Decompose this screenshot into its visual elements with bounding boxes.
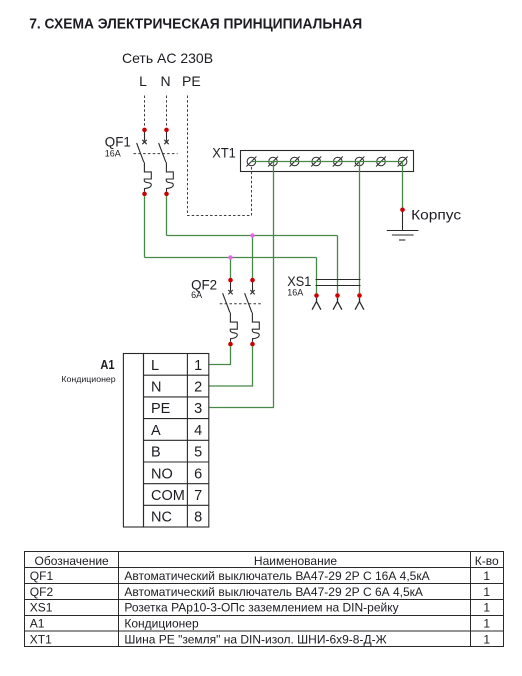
svg-text:N: N xyxy=(160,73,170,89)
QF2 pole 2 xyxy=(245,278,260,347)
XT1 terminal 3 xyxy=(290,157,300,167)
svg-text:7. СХЕМА ЭЛЕКТРИЧЕСКАЯ ПРИНЦИП: 7. СХЕМА ЭЛЕКТРИЧЕСКАЯ ПРИНЦИПИАЛЬНАЯ xyxy=(29,17,362,33)
wire: N horizontal to XS1 xyxy=(167,235,338,237)
svg-text:1: 1 xyxy=(483,616,490,630)
svg-text:L: L xyxy=(139,73,147,89)
XT1 terminal 8 xyxy=(398,157,408,167)
wire: XT1-6 down to XS1 pin 3 xyxy=(359,162,361,294)
svg-text:Автоматический выключатель ВА4: Автоматический выключатель ВА47-29 2Р С … xyxy=(124,569,429,583)
svg-text:8: 8 xyxy=(194,510,202,526)
wire: branch to QF2 pole 1 xyxy=(230,258,232,278)
table row XS1 xyxy=(30,601,491,615)
svg-text:A1: A1 xyxy=(100,357,114,372)
svg-text:QF2: QF2 xyxy=(30,585,54,599)
XT1 terminal 7 xyxy=(376,157,386,167)
svg-text:Автоматический выключатель ВА4: Автоматический выключатель ВА47-29 2Р С … xyxy=(124,585,423,599)
wire: N dashed lead-in xyxy=(166,96,168,128)
A1 body xyxy=(123,354,143,528)
XT1 body xyxy=(241,151,414,172)
svg-text:6: 6 xyxy=(194,466,202,482)
A1 terminal table xyxy=(144,354,209,528)
wire: XT1 PE bus xyxy=(252,161,403,163)
svg-text:Наименование: Наименование xyxy=(254,554,338,568)
XT1 terminal 6 xyxy=(354,157,364,167)
XS1 pin 2 xyxy=(333,293,342,310)
svg-text:16А: 16А xyxy=(105,148,121,158)
wire: QF2 N-out to A1 pin 2 xyxy=(209,346,253,386)
XT1 terminal 4 xyxy=(311,157,321,167)
svg-text:16А: 16А xyxy=(287,288,303,298)
svg-text:PE: PE xyxy=(151,401,171,417)
svg-text:QF1: QF1 xyxy=(105,133,131,149)
XS1 pin 3 xyxy=(355,293,364,310)
svg-text:XS1: XS1 xyxy=(30,601,53,615)
svg-text:3: 3 xyxy=(194,401,202,417)
XT1 terminal 5 xyxy=(333,157,343,167)
junction: L node xyxy=(228,255,232,259)
XS1 body bars xyxy=(316,280,361,286)
svg-text:Розетка РАр10-3-ОПс заземление: Розетка РАр10-3-ОПс заземлением на DIN-р… xyxy=(124,601,398,615)
wire: QF1 L-out down xyxy=(144,196,146,257)
XS1 pin 1 xyxy=(312,293,321,310)
svg-text:Сеть AC 230В: Сеть AC 230В xyxy=(122,50,213,66)
table row QF2 xyxy=(30,585,491,599)
svg-text:2: 2 xyxy=(194,380,202,396)
svg-text:4: 4 xyxy=(194,423,202,439)
svg-text:NC: NC xyxy=(151,510,172,526)
wire: branch to QF2 pole 2 xyxy=(252,236,254,278)
svg-text:B: B xyxy=(151,445,161,461)
QF1 pole 2 xyxy=(159,128,174,197)
junction: N node xyxy=(250,233,254,237)
svg-text:Корпус: Корпус xyxy=(411,208,461,223)
svg-text:A1: A1 xyxy=(30,616,45,630)
XT1 terminal 2 xyxy=(268,157,278,167)
svg-text:1: 1 xyxy=(483,585,490,599)
parts table xyxy=(25,552,504,647)
svg-text:A: A xyxy=(151,423,161,439)
svg-text:1: 1 xyxy=(483,569,490,583)
svg-text:7: 7 xyxy=(194,488,202,504)
svg-text:XT1: XT1 xyxy=(30,632,52,646)
table row QF1 xyxy=(30,569,491,583)
QF1 coupling dashed line xyxy=(134,153,178,155)
svg-text:N: N xyxy=(151,380,161,396)
table header xyxy=(34,554,498,568)
svg-text:1: 1 xyxy=(483,632,490,646)
XT1 terminal 1 xyxy=(246,157,256,167)
wire: PE dashed route to XT1 xyxy=(188,96,252,216)
svg-text:Обозначение: Обозначение xyxy=(34,554,109,568)
svg-text:NO: NO xyxy=(151,466,173,482)
wire: L dashed lead-in xyxy=(144,96,146,128)
wire: N down to XS1 pin 2 xyxy=(337,236,339,294)
svg-text:Кондиционер: Кондиционер xyxy=(61,374,116,384)
QF2 pole 1 xyxy=(223,278,238,347)
svg-text:L: L xyxy=(151,358,159,374)
node: chassis connection dot xyxy=(400,208,405,213)
svg-text:1: 1 xyxy=(194,358,202,374)
ground: Корпус chassis symbol xyxy=(387,212,419,240)
svg-text:XT1: XT1 xyxy=(212,144,236,160)
table row XT1 xyxy=(30,632,491,646)
wire: L down to XS1 pin 1 xyxy=(316,258,318,294)
QF1 pole 1 xyxy=(137,128,152,197)
svg-text:5: 5 xyxy=(194,445,202,461)
svg-text:XS1: XS1 xyxy=(287,273,311,289)
wire: QF1 N-out down xyxy=(166,196,168,235)
svg-text:COM: COM xyxy=(151,488,185,504)
wire: XT1-2 PE to A1 pin 3 xyxy=(209,162,274,408)
svg-text:Шина PE "земля" на DIN-изол. Ш: Шина PE "земля" на DIN-изол. ШНИ-6х9-8-Д… xyxy=(124,632,386,646)
table row A1 xyxy=(30,616,491,630)
wire: L horizontal to XS1 xyxy=(145,257,317,259)
svg-text:Кондиционер: Кондиционер xyxy=(124,616,199,630)
wire: XT1-8 to chassis xyxy=(402,162,404,208)
svg-text:К-во: К-во xyxy=(475,554,499,568)
svg-text:QF1: QF1 xyxy=(30,569,54,583)
svg-text:6А: 6А xyxy=(191,290,202,300)
svg-text:PE: PE xyxy=(182,73,201,89)
svg-text:1: 1 xyxy=(483,601,490,615)
wire: QF2 L-out to A1 pin 1 xyxy=(209,346,231,364)
QF2 coupling dashed line xyxy=(220,303,263,305)
